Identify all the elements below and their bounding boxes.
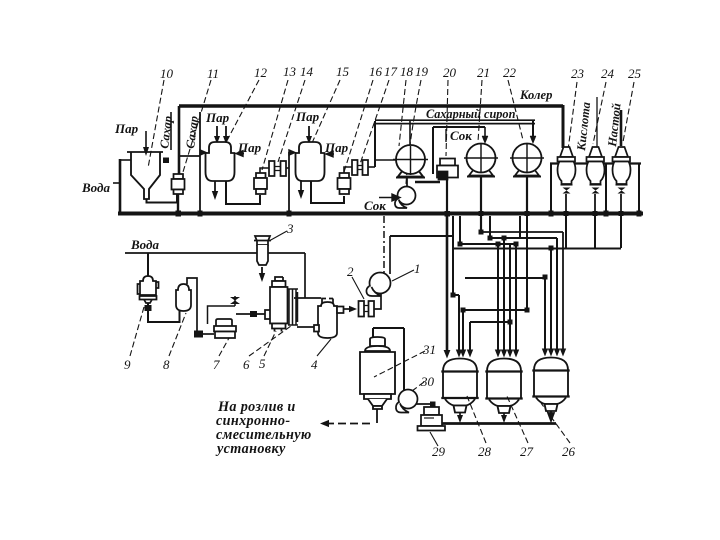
leader 15 — [308, 80, 340, 152]
leader 6 — [249, 326, 291, 356]
svg-text:26: 26 — [562, 444, 576, 459]
mixer 22 base — [513, 169, 541, 177]
hopper outlet pipe — [147, 193, 178, 203]
leader 25 — [623, 82, 634, 142]
pump 13 (flanged) — [254, 173, 267, 194]
leader 27 — [506, 394, 528, 443]
drop 453 — [452, 216, 454, 295]
mixer 21 body — [464, 144, 498, 173]
couplings 14 to riser — [286, 167, 289, 169]
couplings 17 to syrup riser — [368, 166, 375, 168]
side header line — [550, 162, 641, 164]
inlet arrow into vessel 12 — [200, 150, 206, 155]
steam arrow into vessel 12 right side — [236, 151, 244, 157]
svg-text:3: 3 — [286, 221, 294, 236]
word labels — [81, 88, 624, 252]
steam arrow into vessel 15 right side — [326, 151, 334, 157]
pump 11 top line to vessel 12 — [179, 156, 200, 174]
svg-text:20: 20 — [443, 65, 457, 80]
inlet arrow into vessel 15 — [289, 150, 295, 155]
pipe from syrup riser to dissolver 18 — [375, 159, 396, 161]
pump 19 outlet pipe — [415, 181, 440, 183]
stack 6 bottom pipe to vessel 4 — [297, 326, 314, 328]
pump 19 inlet stem — [406, 178, 408, 188]
leader 26 — [541, 403, 570, 443]
pipe junction squares on bus — [163, 158, 642, 325]
vessel 24 — [587, 147, 605, 194]
svg-text:30: 30 — [420, 374, 435, 389]
leader 14 — [278, 80, 305, 162]
water line — [125, 252, 305, 254]
svg-text:7: 7 — [213, 357, 220, 372]
softener 9 — [138, 276, 159, 303]
leader 24 — [593, 82, 606, 144]
syrup line under text — [375, 119, 535, 121]
vessel 4 outlet to coupling 2 — [344, 308, 350, 310]
storage tank 27 — [485, 359, 522, 414]
svg-text:установку: установку — [215, 441, 286, 457]
syrup corner drop into vessel 22 — [532, 121, 534, 139]
leader 12 — [222, 80, 259, 150]
svg-text:8: 8 — [163, 357, 170, 372]
leader 7 — [219, 338, 229, 356]
svg-text:4: 4 — [311, 357, 318, 372]
valve square under vessel 9 — [145, 305, 152, 311]
juice inlet arrow — [379, 194, 400, 201]
leader 20 — [446, 80, 448, 156]
svg-text:19: 19 — [415, 64, 429, 79]
header y238 branch to tank 27 — [503, 238, 505, 350]
svg-text:1: 1 — [414, 261, 421, 276]
leader 17 — [360, 80, 389, 164]
leader 30 — [412, 382, 424, 391]
vessel 12 (dome pot) — [206, 142, 235, 181]
svg-text:29: 29 — [432, 444, 446, 459]
leader 13 — [262, 80, 288, 170]
leader 16 — [344, 80, 373, 172]
leader 31 — [374, 351, 425, 377]
valve square to pan 7 — [203, 333, 214, 335]
pump 1 delivery riser — [389, 236, 391, 274]
svg-text:Сахарный сироп: Сахарный сироп — [426, 107, 516, 121]
coupling 2 — [359, 301, 375, 317]
dissolver 18 body — [396, 145, 425, 174]
couplings 14 — [269, 161, 286, 176]
drop 566 from vessel 23 — [565, 216, 567, 248]
hopper 10 — [127, 152, 163, 199]
collector line from tanks — [442, 422, 556, 425]
svg-text:Вода: Вода — [130, 237, 159, 252]
leader 10 — [148, 80, 164, 168]
svg-text:Пар: Пар — [324, 140, 349, 155]
stem 24 to bus — [594, 194, 596, 216]
vessel 12 drain arrow — [214, 181, 216, 196]
branch 498 — [497, 244, 499, 350]
svg-text:Пар: Пар — [237, 140, 262, 155]
koler corner pipe down to vessel 23 — [562, 105, 565, 148]
numbers row — [160, 64, 642, 81]
svg-text:2: 2 — [347, 264, 354, 279]
sok box right edge into vessel 21 — [484, 127, 486, 139]
vessel 25 — [613, 147, 631, 194]
mixer 22 body — [510, 144, 544, 173]
svg-text:11: 11 — [207, 66, 219, 81]
right loop pipe of 25 — [638, 163, 640, 212]
infusion feed line into 25 — [620, 110, 623, 146]
leader 4 — [317, 339, 331, 356]
storage tank 28 — [441, 359, 478, 413]
svg-text:Сок: Сок — [450, 128, 472, 143]
svg-text:Вода: Вода — [81, 180, 110, 195]
leader 9 — [130, 307, 144, 356]
svg-text:27: 27 — [520, 444, 534, 459]
drop 490 — [489, 216, 491, 238]
svg-text:15: 15 — [336, 64, 350, 79]
water line right drop — [304, 253, 306, 298]
junction dot pump 30 line — [430, 402, 436, 408]
pump 30 volute — [396, 390, 418, 413]
vessel 22 drop to bus — [526, 177, 528, 216]
pump 13 top pipe to couplings 14 — [260, 168, 269, 173]
pipe down to pump 30 — [403, 328, 405, 390]
steam arrow into vessel 15 top — [308, 126, 310, 140]
left loop pipe of 23 — [550, 163, 552, 212]
leader 23 — [568, 82, 577, 150]
pump 30 outlet to unit 29 — [416, 404, 433, 409]
water stub to hopper — [120, 159, 131, 161]
header y310 — [463, 310, 527, 350]
leader 22 — [508, 80, 523, 140]
tank 26 outlet stem — [548, 411, 554, 421]
svg-text:5: 5 — [259, 356, 266, 371]
header y248 collecting 23-25 — [454, 249, 621, 351]
vessel 4 — [314, 299, 344, 339]
pan 7 outlet to heater 5 — [236, 313, 265, 315]
juice pump 19 — [379, 178, 440, 209]
water line to filter stack and vessel 4 — [294, 297, 321, 299]
vessel 15 outlet pipe to pump 16 — [311, 181, 344, 203]
vessel 15 drain arrow — [300, 181, 302, 195]
pump 19 volute body — [398, 187, 416, 205]
vessel 12 outlet pipe to pump 13 — [226, 181, 260, 204]
vessel 15 (dome pot) — [296, 142, 325, 181]
vessel 8 top outlet — [187, 278, 197, 331]
branch y278 — [465, 278, 545, 350]
drop 621 from vessel 25 — [620, 216, 622, 248]
vessel 21 drop to bus — [480, 177, 482, 216]
leader 5 — [264, 331, 276, 356]
sok box top — [433, 126, 485, 128]
drop 595 from vessel 24 — [594, 216, 596, 248]
svg-text:Сок: Сок — [364, 198, 386, 213]
junction dots — [481, 232, 490, 238]
filter 3 — [254, 236, 271, 265]
svg-text:Пар: Пар — [114, 121, 139, 136]
valve square before heater 5 — [250, 311, 257, 317]
juice suction line (dash-dot) — [383, 216, 385, 273]
svg-text:12: 12 — [254, 65, 268, 80]
syrup line left drop — [374, 121, 376, 167]
leader 18 — [399, 80, 406, 146]
main drop from pump 20 to tank 28 — [446, 216, 449, 352]
svg-text:23: 23 — [571, 66, 585, 81]
svg-text:25: 25 — [628, 66, 642, 81]
svg-text:Пар: Пар — [295, 109, 320, 124]
heater 5 — [265, 277, 288, 332]
svg-text:22: 22 — [503, 65, 517, 80]
svg-text:6: 6 — [243, 357, 250, 372]
dosing unit 29 — [418, 407, 446, 431]
leader 21 — [478, 80, 482, 142]
header y232 to tank 26 — [481, 232, 563, 350]
sok box left edge — [432, 127, 434, 174]
inlet arrows row into tank 26 — [542, 349, 566, 357]
svg-text:28: 28 — [478, 444, 492, 459]
svg-text:17: 17 — [384, 64, 398, 79]
svg-text:13: 13 — [283, 64, 297, 79]
leader 11 — [183, 80, 211, 172]
water inlet stub — [113, 182, 120, 184]
stem 23 to bus — [565, 194, 567, 216]
svg-text:Пар: Пар — [205, 110, 230, 125]
sprinkler feed to pan 7 — [208, 296, 236, 324]
mixer 21 base — [467, 169, 495, 177]
riser / compartment header at 289 — [288, 152, 290, 213]
bottom numbers — [124, 221, 576, 459]
couplings 17 — [352, 160, 368, 175]
sprinkler valve bowtie — [230, 297, 240, 304]
svg-text:Колер: Колер — [519, 88, 552, 102]
pump 11 bottom drop to bus — [177, 193, 179, 213]
svg-text:9: 9 — [124, 357, 131, 372]
leader 1 — [392, 270, 414, 281]
main frame top line — [179, 104, 563, 108]
sugar pipe 2 / compartment header — [199, 112, 201, 213]
stem 25 to bus — [620, 194, 622, 216]
storage tank 26 — [532, 358, 569, 412]
leader 29 — [430, 432, 438, 446]
header y244 to tank 27 — [460, 244, 516, 350]
pump 1 delivery line — [390, 235, 453, 237]
valve square before pan 7 — [194, 331, 203, 338]
frame left edge — [178, 106, 181, 175]
header y322 — [470, 244, 510, 350]
destination text block — [215, 399, 312, 457]
sok inlet tick — [445, 129, 447, 142]
coupling 2 to pump 1 riser — [373, 293, 381, 309]
steam arrow into hopper — [145, 131, 147, 152]
bottom main bus — [118, 212, 643, 216]
pump 20 — [437, 159, 458, 180]
vessel 9 outlet — [148, 303, 180, 322]
header y238 to tank 26 — [490, 238, 557, 350]
leader 28 — [467, 396, 486, 443]
junction squares — [451, 230, 554, 313]
pan 7 — [214, 319, 236, 338]
branch y295 — [453, 295, 459, 350]
drop 527 from mixer 22 — [526, 216, 528, 310]
drop 520 — [519, 216, 521, 238]
blend tank 31 — [360, 337, 395, 409]
leader 19 — [406, 80, 421, 184]
svg-text:24: 24 — [601, 66, 615, 81]
vessel 23 — [558, 147, 576, 194]
sugar pipe 1 — [170, 112, 172, 150]
leader 2 — [352, 277, 364, 299]
svg-text:21: 21 — [477, 65, 490, 80]
acid feed line into 24 — [596, 97, 598, 147]
tank 27 outlet stem — [503, 413, 505, 418]
steam arrows into vessel 12 — [217, 126, 226, 140]
right loop pipe of 24 — [605, 163, 607, 212]
tank 28 outlet stem — [459, 413, 461, 418]
svg-text:10: 10 — [160, 66, 174, 81]
leader 8 — [169, 313, 186, 356]
svg-text:16: 16 — [369, 64, 383, 79]
inlet arrows row into tank 27 — [495, 350, 519, 358]
softener 8 — [176, 284, 191, 311]
svg-text:18: 18 — [400, 64, 414, 79]
pump 16 top pipe to couplings 17 — [344, 167, 352, 173]
tank 31 bottom stem — [376, 406, 378, 423]
svg-text:14: 14 — [300, 64, 314, 79]
pump 11 (flanged) — [172, 174, 185, 194]
filter stack 6 — [288, 289, 298, 325]
drop into vessel 9 — [147, 253, 149, 277]
pump 16 (flanged) — [338, 173, 351, 194]
tank 31 top pipe — [373, 328, 404, 340]
drop 460 — [459, 216, 461, 244]
product line to filling (dashed) — [326, 423, 374, 425]
syrup drop into dissolver 18 — [409, 121, 411, 146]
drop 481 from mixer 21 — [480, 216, 482, 232]
svg-text:31: 31 — [422, 342, 436, 357]
dissolver base — [398, 170, 423, 177]
inlet arrows row into tank 28 — [444, 350, 474, 359]
pump 1 volute — [366, 273, 390, 297]
left frame drop — [119, 159, 122, 213]
pump 20 drop through bus — [446, 180, 448, 216]
filter 3 needle outlet arrow — [261, 267, 263, 276]
leader 3 — [269, 231, 287, 241]
